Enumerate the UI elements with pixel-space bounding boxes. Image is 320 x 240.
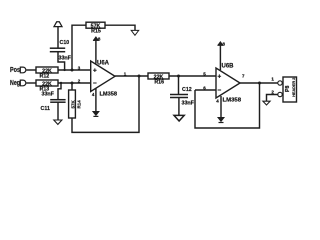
resistor R13 — [36, 80, 58, 86]
capacitor C11 — [58, 83, 61, 100]
power arrow (down) at R15 right — [131, 30, 139, 35]
power arrow (down) under C11 — [54, 120, 62, 124]
svg-text:C12: C12 — [182, 87, 192, 93]
power arrow (down) under C12 — [174, 115, 184, 121]
pin 1 output wire U6A — [115, 75, 148, 77]
minus sign pin6 — [218, 89, 222, 91]
node junction R14 on Neg wire — [71, 82, 74, 85]
node junction C10 on Pos wire — [64, 69, 66, 71]
svg-text:33nF: 33nF — [42, 92, 55, 98]
wire C10 bottom to Pos node — [58, 52, 65, 70]
wire R15 left leg down to Pos node — [72, 25, 86, 70]
plus sign pin3 — [93, 68, 97, 72]
feedback resistor R14 (vertical) — [71, 83, 73, 90]
op-amp U6B — [216, 68, 240, 98]
svg-text:P8: P8 — [285, 85, 291, 92]
power VCC arrow (up) above C10 — [54, 22, 62, 27]
pin 8 power (up) U6A — [95, 41, 97, 64]
power arrow (down) at connector pin2 — [263, 101, 270, 105]
svg-text:U6A: U6A — [97, 61, 110, 67]
connector P8 pin2 circle — [278, 92, 282, 96]
svg-text:LM358: LM358 — [100, 91, 118, 97]
output wire U6B pin7 — [240, 82, 278, 84]
svg-text:33nF: 33nF — [59, 56, 72, 62]
pin 8 power (up) U6B — [219, 46, 221, 71]
node junction feedback on output wire — [138, 75, 141, 78]
svg-text:R12: R12 — [40, 74, 50, 80]
node junction R15 on Pos wire — [71, 69, 74, 72]
minus sign pin2 — [93, 82, 97, 84]
svg-text:R16: R16 — [154, 80, 164, 86]
wire R16 to U6B pin5 — [169, 75, 216, 77]
svg-text:Neg: Neg — [10, 80, 20, 87]
connector P8 pin1 circle — [278, 81, 282, 85]
svg-text:C10: C10 — [60, 40, 70, 46]
svg-text:R15: R15 — [91, 29, 101, 35]
node junction feedback on U6B output — [258, 82, 261, 85]
feedback loop wire U6B — [195, 83, 260, 128]
op-amp U6A — [91, 61, 115, 92]
svg-text:R14: R14 — [76, 100, 81, 109]
plus sign pin5 — [218, 74, 222, 78]
wire Neg port to R13 — [26, 82, 36, 84]
svg-text:U6B: U6B — [222, 64, 235, 70]
wire U6B pin6 — [195, 89, 216, 91]
capacitor C12 — [178, 76, 180, 94]
wire R13 to U6A pin2 — [58, 82, 91, 84]
node junction C12 — [177, 75, 180, 78]
wire Pos port to R12 — [26, 69, 36, 71]
svg-text:C11: C11 — [41, 106, 50, 112]
resistor R16 — [148, 73, 169, 79]
wire R12 to U6A pin3 — [58, 69, 91, 71]
resistor R15 — [86, 22, 105, 28]
svg-text:57K: 57K — [71, 99, 76, 108]
node junction C11 on Neg wire — [60, 82, 62, 84]
svg-text:HEADER 2: HEADER 2 — [292, 78, 296, 97]
connector P8 body — [283, 77, 297, 102]
capacitor C10 — [50, 47, 65, 49]
svg-text:LM358: LM358 — [223, 97, 242, 103]
svg-text:Pos: Pos — [10, 67, 20, 74]
svg-text:33nF: 33nF — [182, 100, 195, 106]
wire R15 to down arrow — [105, 25, 135, 30]
wire R14 bottom to U6A output — [72, 76, 139, 132]
resistor R12 — [36, 67, 58, 73]
wire pin2 to ground arrow — [267, 95, 278, 102]
